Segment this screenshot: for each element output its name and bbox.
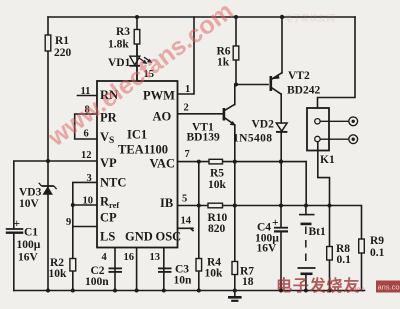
wire NTC pin3	[73, 182, 97, 290]
capacitor C1	[6, 218, 41, 264]
svg-text:+: +	[14, 218, 21, 230]
wire R6 branch	[235, 17, 237, 85]
zener diode VD3	[19, 183, 57, 210]
svg-text:BD242: BD242	[287, 85, 320, 97]
wire battery top	[305, 206, 307, 215]
wire VD2 cathode down	[280, 132, 282, 206]
resistor R8	[327, 243, 351, 266]
wire top rail	[48, 16, 355, 18]
node bottom pin4	[113, 289, 117, 293]
svg-text:PWM: PWM	[143, 89, 175, 103]
node bottom Bt1	[304, 289, 308, 293]
wire CP pin9	[73, 226, 97, 228]
svg-text:7: 7	[185, 149, 190, 160]
node VAC VD2	[279, 159, 283, 163]
svg-text:电子发烧友网: 电子发烧友网	[284, 13, 335, 23]
op-amp U1 TEA1100 box	[97, 81, 181, 248]
wire right top drop	[318, 17, 356, 108]
svg-text:2: 2	[184, 103, 189, 114]
wire node drop to battery plus	[305, 162, 307, 206]
svg-text:LS: LS	[100, 230, 115, 244]
svg-text:AO: AO	[153, 110, 172, 124]
svg-text:IC1: IC1	[127, 128, 147, 142]
resistor R4	[196, 257, 223, 280]
wire left rail	[47, 17, 49, 291]
wire VD1 cathode to pin15	[136, 66, 138, 81]
wire VP pin12	[48, 160, 97, 162]
svg-text:10k: 10k	[49, 268, 68, 280]
svg-text:VD2: VD2	[252, 119, 275, 131]
node R6 base	[234, 83, 238, 87]
wire C4 bottom	[280, 232, 282, 291]
svg-text:电子发烧友: 电子发烧友	[276, 276, 360, 295]
svg-text:10V: 10V	[19, 198, 40, 210]
svg-text:C1: C1	[24, 227, 38, 239]
node bottom R4	[197, 289, 201, 293]
node Rref	[71, 203, 75, 207]
svg-text:100µ: 100µ	[17, 239, 41, 251]
svg-text:1: 1	[185, 84, 190, 95]
wire pin8 pin6 loop	[75, 114, 97, 139]
wire R4 branch	[198, 162, 200, 291]
svg-text:820: 820	[208, 223, 226, 235]
wire VT1 emitter R7 branch	[234, 125, 236, 291]
svg-text:1N5408: 1N5408	[233, 133, 272, 145]
svg-text:16: 16	[124, 252, 135, 263]
svg-text:BD139: BD139	[187, 132, 220, 144]
svg-text:14: 14	[181, 216, 192, 227]
svg-text:CP: CP	[100, 211, 117, 225]
node bottom C4	[279, 289, 283, 293]
svg-text:220: 220	[54, 47, 72, 59]
node rail Bt1	[304, 204, 308, 208]
wire pin16 drop	[136, 248, 138, 291]
resistor R10	[208, 203, 228, 235]
svg-text:K1: K1	[320, 154, 335, 166]
resistor R6	[217, 46, 239, 69]
wire pin14 stub	[178, 227, 194, 229]
wire IB rail pin5	[178, 206, 362, 291]
wire pin11 stub	[78, 95, 98, 97]
wire VT2 emitter up	[281, 17, 283, 73]
svg-text:10k: 10k	[205, 268, 224, 280]
capacitor C3	[158, 264, 192, 287]
transistor VT2 BD242	[271, 70, 321, 97]
wire battery bottom	[305, 275, 307, 291]
svg-text:10: 10	[83, 196, 94, 207]
svg-text:13: 13	[150, 252, 161, 263]
svg-text:GND: GND	[125, 230, 153, 244]
node top R6	[234, 15, 238, 19]
svg-text:R3: R3	[116, 26, 130, 38]
watermark badge	[376, 281, 400, 293]
wire C4 branch	[280, 206, 282, 228]
wire Rref pin10	[73, 204, 97, 206]
transistor VT1 BD139	[187, 104, 236, 143]
battery Bt1	[298, 215, 327, 274]
svg-text:4: 4	[102, 252, 108, 263]
svg-text:R9: R9	[370, 235, 384, 247]
resistor R2	[49, 257, 76, 280]
wire VAC pin7 node	[178, 161, 307, 163]
wire K1 contact drop	[318, 142, 330, 206]
node VP left	[46, 159, 50, 163]
resistor R9	[359, 235, 385, 259]
svg-text:Bt1: Bt1	[309, 226, 327, 238]
wire VT1 collector up	[234, 85, 236, 105]
wire VP branch to C1	[14, 161, 48, 228]
node VAC emitter	[233, 160, 237, 164]
node top VT2	[280, 15, 284, 19]
node bottom R8	[328, 289, 332, 293]
node bottom left rail	[46, 289, 50, 293]
resistor R7	[232, 262, 254, 289]
svg-text:NTC: NTC	[100, 176, 126, 190]
wire R3 VD1 branch	[136, 17, 138, 81]
svg-text:+: +	[272, 217, 279, 229]
svg-text:R1: R1	[55, 35, 69, 47]
node bottom pin16	[135, 289, 139, 293]
node rail R8	[328, 204, 332, 208]
resistor R3	[108, 26, 140, 51]
svg-text:0.1: 0.1	[370, 247, 385, 259]
capacitor C2	[85, 265, 122, 288]
svg-text:TEA1100: TEA1100	[118, 143, 168, 157]
wire pin13 drop	[163, 248, 165, 291]
svg-text:VT2: VT2	[288, 70, 310, 82]
node rail R7	[233, 204, 237, 208]
node top R3	[135, 15, 139, 19]
diode VD2 1N5408	[233, 119, 287, 145]
relay K1	[307, 108, 358, 166]
svg-text:VD3: VD3	[19, 187, 42, 199]
wire VT2 collector to VD2	[280, 94, 282, 123]
wire PWM pin1	[178, 17, 195, 94]
svg-text:IB: IB	[160, 196, 173, 210]
wire bottom rail	[14, 290, 365, 292]
svg-text:9: 9	[66, 217, 71, 228]
svg-text:18: 18	[242, 276, 254, 288]
svg-text:100n: 100n	[85, 276, 109, 288]
svg-text:ans.co: ans.co	[378, 283, 400, 292]
node bottom R2	[71, 289, 75, 293]
resistor R1	[45, 35, 71, 59]
svg-text:16V: 16V	[257, 243, 278, 255]
wire R8 branch	[329, 206, 331, 291]
svg-text:10k: 10k	[208, 179, 227, 191]
svg-text:VP: VP	[100, 156, 117, 170]
svg-text:5: 5	[182, 194, 187, 205]
svg-text:R5: R5	[210, 168, 224, 180]
LED VD1	[108, 44, 153, 69]
ground	[228, 291, 242, 301]
svg-text:1.8k: 1.8k	[108, 39, 129, 51]
wire VT2 base	[236, 84, 268, 86]
svg-text:3: 3	[87, 173, 92, 184]
node rail C4	[279, 204, 283, 208]
node VAC R4	[197, 160, 201, 164]
node bottom pin13	[162, 289, 166, 293]
wire AO pin2	[178, 113, 224, 115]
svg-text:10n: 10n	[174, 275, 193, 287]
svg-text:VAC: VAC	[150, 157, 175, 171]
svg-text:elec: elec	[350, 285, 365, 294]
capacitor C4	[255, 217, 288, 255]
wire pin4 drop	[114, 248, 116, 291]
svg-text:0.1: 0.1	[337, 254, 352, 266]
svg-text:OSC: OSC	[156, 230, 182, 244]
wire C1 bottom	[13, 233, 15, 291]
resistor R5	[208, 159, 227, 191]
svg-text:16V: 16V	[18, 252, 39, 264]
node bottom ground	[233, 289, 237, 293]
svg-text:1k: 1k	[217, 57, 230, 69]
node rail R4	[197, 204, 201, 208]
svg-text:12: 12	[81, 150, 92, 161]
